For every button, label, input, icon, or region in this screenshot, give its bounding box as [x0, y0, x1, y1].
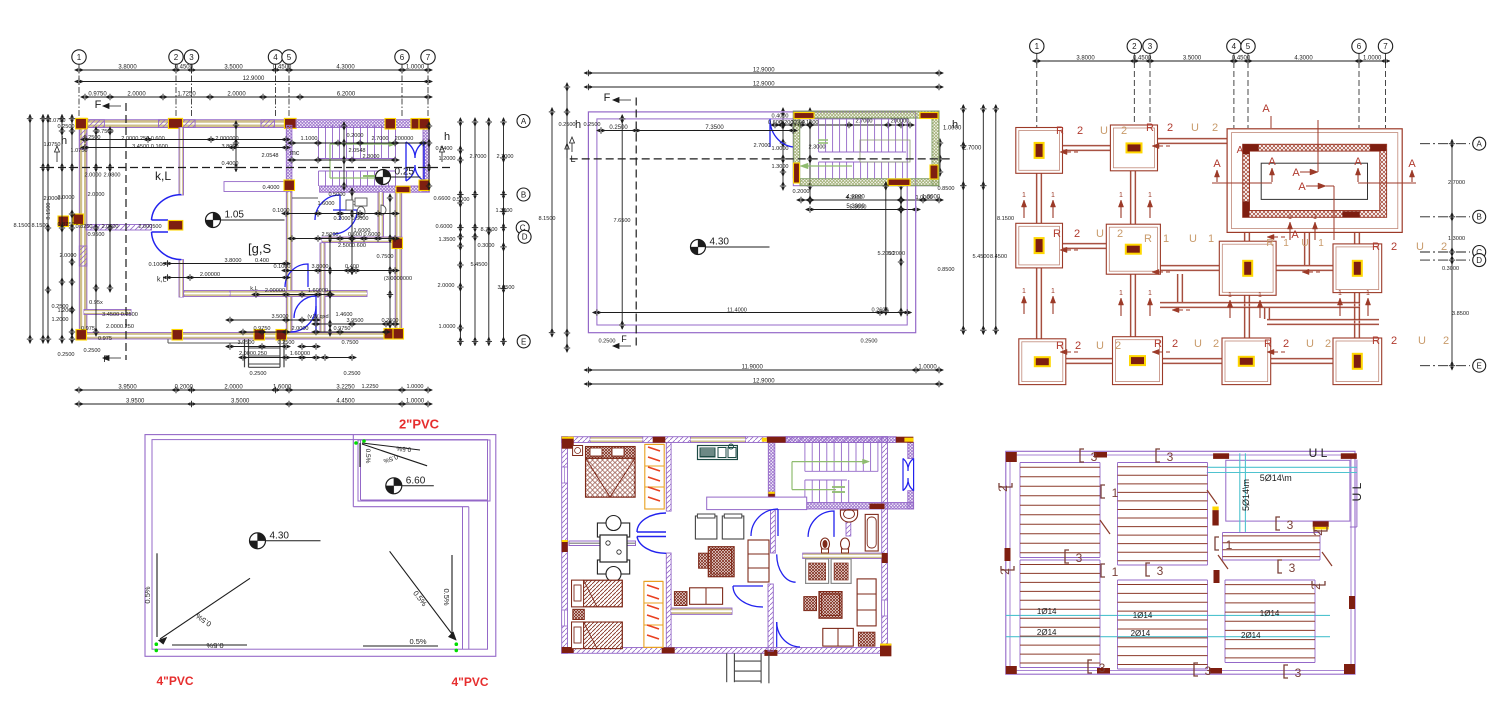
- svg-text:5.3000: 5.3000: [849, 205, 866, 211]
- plan1 interior wall left room divider: [230, 291, 367, 297]
- svg-text:3: 3: [1148, 42, 1153, 51]
- plan5 column blocks: [562, 437, 574, 449]
- svg-text:1.3000: 1.3000: [495, 208, 512, 214]
- plan5 hall door arcs: [751, 509, 778, 536]
- svg-text:1: 1: [1035, 42, 1040, 51]
- plan1 stair top wall crosshatch: [296, 120, 429, 128]
- plan1 top wall columns: [79, 118, 88, 128]
- svg-text:4.1000: 4.1000: [801, 120, 818, 126]
- plan1 small wall bottom-left: [84, 310, 131, 315]
- svg-text:0.4000: 0.4000: [262, 185, 279, 191]
- svg-text:U L: U L: [1309, 446, 1328, 460]
- plan3 grid bubbles: [1030, 39, 1044, 53]
- svg-text:12.9000: 12.9000: [753, 82, 775, 88]
- svg-text:1.05: 1.05: [225, 210, 245, 221]
- svg-text:F: F: [103, 354, 109, 364]
- svg-text:4.3000: 4.3000: [845, 195, 862, 201]
- plan6 rebar panels: [1019, 463, 1021, 558]
- svg-text:0.1000: 0.1000: [148, 262, 165, 268]
- svg-text:2: 2: [1167, 122, 1173, 134]
- svg-text:1.1000: 1.1000: [300, 136, 317, 142]
- plan4 slope arrows bottom-left: [160, 578, 250, 639]
- svg-text:1Ø14: 1Ø14: [1037, 607, 1057, 616]
- svg-text:6: 6: [1357, 42, 1362, 51]
- svg-text:3.8000: 3.8000: [118, 65, 137, 71]
- svg-text:0.2500: 0.2500: [583, 122, 600, 128]
- svg-text:0.5000: 0.5000: [328, 192, 345, 198]
- plan5 stair block walls crosshatch: [786, 437, 896, 443]
- plan1 stair treads lower flight: [318, 171, 320, 186]
- svg-text:1: 1: [1283, 238, 1289, 249]
- svg-text:A: A: [1291, 229, 1299, 241]
- plan5 bed1 double bed: [586, 447, 636, 498]
- svg-text:1: 1: [1148, 192, 1152, 199]
- svg-text:2: 2: [1391, 241, 1397, 253]
- svg-text:1.0000: 1.0000: [406, 65, 425, 71]
- svg-text:2Ø14: 2Ø14: [1241, 631, 1261, 640]
- plan5 study desk: [690, 588, 723, 605]
- svg-text:6: 6: [400, 53, 405, 62]
- svg-text:2Ø14: 2Ø14: [1037, 628, 1057, 637]
- svg-text:4.30: 4.30: [270, 530, 290, 541]
- svg-text:2Ø14: 2Ø14: [1131, 629, 1151, 638]
- svg-text:3: 3: [1205, 664, 1212, 678]
- plan1 corner column redraw: [76, 118, 87, 128]
- plan5 stair green arrow: [792, 461, 863, 463]
- plan6 stair region rect: [1226, 460, 1350, 521]
- plan1 porch outline: [167, 339, 169, 343]
- svg-text:1.0000: 1.0000: [406, 399, 425, 405]
- plan2 stair hatched bands: [793, 111, 939, 118]
- svg-text:U: U: [1418, 335, 1426, 347]
- plan1 interior wall at x179: [179, 128, 184, 196]
- svg-text:7: 7: [426, 53, 431, 62]
- plan4 level markers: [250, 533, 266, 549]
- plan6 bracket labels: [1080, 449, 1084, 462]
- svg-text:3.8000: 3.8000: [224, 258, 241, 264]
- plan3 stair footing dark segments: [1243, 144, 1259, 151]
- svg-text:1.0000: 1.0000: [918, 365, 937, 371]
- svg-text:1.3500: 1.3500: [438, 237, 455, 243]
- plan5 interior walls: [666, 443, 671, 512]
- svg-text:2.0800: 2.0800: [103, 173, 120, 179]
- plan1 door arc hall: [333, 210, 357, 234]
- svg-text:12.9000: 12.9000: [243, 76, 265, 82]
- svg-text:(3.0000000: (3.0000000: [384, 276, 412, 282]
- svg-text:1: 1: [1051, 192, 1055, 199]
- svg-text:3.8000: 3.8000: [311, 264, 328, 270]
- plan3 beams vertical: [1035, 170, 1037, 225]
- plan5 upper hall arc: [777, 554, 796, 582]
- svg-text:1.6000: 1.6000: [273, 385, 292, 391]
- svg-text:5.4500: 5.4500: [972, 254, 989, 260]
- svg-text:1.0000: 1.0000: [771, 146, 788, 152]
- svg-text:1: 1: [1119, 290, 1123, 297]
- svg-text:R: R: [1144, 233, 1152, 245]
- plan5 toilets: [821, 538, 830, 550]
- plan1 far left dim chains: [29, 119, 31, 339]
- plan5 bathroom sink: [840, 510, 857, 522]
- svg-text:7: 7: [1383, 42, 1388, 51]
- svg-text:1Ø14: 1Ø14: [1260, 609, 1280, 618]
- svg-text:A: A: [1408, 158, 1416, 170]
- plan2 stair green arrow: [806, 165, 852, 167]
- svg-text:5: 5: [1246, 42, 1251, 51]
- plan2 left dim verticals: [551, 112, 553, 333]
- plan1 kitchen counter line: [292, 197, 318, 199]
- svg-text:1: 1: [1112, 486, 1119, 500]
- plan1 interior vertical wall right room: [320, 243, 325, 333]
- svg-text:mc: mc: [290, 150, 300, 157]
- svg-text:0.4500: 0.4500: [175, 65, 194, 71]
- svg-text:2: 2: [1441, 241, 1447, 253]
- svg-text:2.0548: 2.0548: [348, 148, 365, 154]
- plan5 wardrobe1 orange: [645, 444, 664, 509]
- plan4 upper-right terrace sub-rect outer: [352, 435, 354, 507]
- plan5 tv unit: [823, 628, 854, 646]
- svg-text:1.2250: 1.2250: [361, 384, 378, 390]
- svg-text:1: 1: [1228, 292, 1232, 299]
- plan5 nightstand1: [573, 446, 583, 456]
- plan1 left wall: [79, 120, 87, 339]
- svg-text:8.1500: 8.1500: [538, 216, 555, 222]
- svg-text:200000: 200000: [891, 119, 910, 125]
- svg-text:0.975: 0.975: [98, 336, 112, 342]
- svg-text:A: A: [1213, 158, 1221, 170]
- plan1 interior vertical wall mid: [286, 192, 292, 333]
- svg-text:0.2500: 0.2500: [51, 304, 68, 310]
- svg-text:0.400: 0.400: [255, 258, 269, 264]
- plan2 stair treads: [818, 119, 820, 153]
- svg-text:0.2500: 0.2500: [860, 339, 877, 345]
- plan2 top dim rows: [588, 72, 939, 74]
- plan1 interior wall kitchen vertical: [378, 192, 384, 237]
- plan1 stair bottom column: [396, 186, 410, 193]
- svg-text:3: 3: [1091, 450, 1098, 464]
- plan1 stair left wall crosshatch: [286, 125, 292, 192]
- plan2 section dashed h: [570, 158, 951, 160]
- svg-text:A: A: [1477, 140, 1483, 149]
- svg-text:R: R: [1264, 338, 1272, 350]
- plan5 entrance steps: [726, 653, 728, 682]
- svg-text:0.2500: 0.2500: [343, 371, 360, 377]
- svg-text:4: 4: [1232, 42, 1237, 51]
- svg-text:U: U: [1191, 122, 1199, 134]
- svg-text:2.0000.250 0.600: 2.0000.250 0.600: [121, 136, 165, 142]
- plan1 column blocks: [385, 119, 396, 130]
- svg-text:E: E: [521, 337, 526, 346]
- svg-text:B: B: [1477, 213, 1482, 222]
- plan5 living armchairs: [695, 516, 717, 539]
- plan4 inner rect: [152, 440, 488, 650]
- plan2 inner rectangle: [597, 119, 907, 325]
- svg-text:0.5%: 0.5%: [143, 586, 152, 603]
- plan5 nightstand2: [573, 609, 585, 619]
- svg-text:U: U: [1100, 125, 1108, 137]
- svg-text:0.2500: 0.2500: [249, 371, 266, 377]
- plan2 level marker: [691, 240, 706, 255]
- svg-text:2.000500: 2.000500: [138, 224, 161, 230]
- svg-text:3.9500: 3.9500: [126, 399, 145, 405]
- svg-text:1.2000: 1.2000: [51, 317, 68, 323]
- svg-text:2.7000: 2.7000: [496, 154, 513, 160]
- svg-text:2.0000: 2.0000: [227, 92, 246, 98]
- svg-text:3: 3: [1076, 551, 1083, 565]
- svg-text:3: 3: [1289, 561, 1296, 575]
- svg-text:0.8250: 0.8250: [75, 224, 92, 230]
- plan5 living2 armchairs top: [806, 559, 829, 584]
- svg-text:3.4500 0.2500: 3.4500 0.2500: [102, 312, 138, 318]
- svg-text:U: U: [1416, 241, 1424, 253]
- svg-text:2: 2: [1115, 340, 1121, 352]
- plan1 double door center block: [168, 221, 183, 231]
- svg-text:1: 1: [1022, 288, 1026, 295]
- plan5 living door arc: [733, 586, 763, 607]
- plan5 kitchen counter: [698, 446, 738, 460]
- plan1 0.4000 white box: [224, 182, 285, 192]
- svg-text:2.0000: 2.0000: [224, 385, 243, 391]
- plan1 stair bottom band crosshatch: [320, 186, 430, 192]
- svg-text:U: U: [1306, 338, 1314, 350]
- svg-text:2: 2: [174, 53, 179, 62]
- plan1 interior wall left small: [184, 291, 230, 297]
- plan3 beams horizontal: [1062, 144, 1111, 146]
- plan5 side table2: [804, 597, 817, 611]
- plan6 cyan lines: [1207, 466, 1357, 468]
- plan3 footing squares row2: [1016, 223, 1063, 268]
- plan1 grid dashed lines: [78, 64, 80, 117]
- plan1 top wall hatched window segments: [87, 120, 104, 128]
- svg-text:U: U: [1194, 338, 1202, 350]
- svg-text:[g,S: [g,S: [248, 241, 271, 256]
- plan1 stair double door blue: [406, 142, 424, 181]
- svg-text:0.4500: 0.4500: [273, 65, 292, 71]
- svg-text:0.2000: 0.2000: [175, 385, 194, 391]
- svg-text:0.1000: 0.1000: [273, 264, 290, 270]
- plan3 footing squares row1: [1016, 128, 1063, 174]
- svg-text:1: 1: [1338, 290, 1342, 297]
- svg-text:2.7000: 2.7000: [753, 143, 770, 149]
- plan2 outer rectangle: [588, 112, 915, 333]
- svg-text:8.4500: 8.4500: [990, 254, 1007, 260]
- svg-text:8.1500: 8.1500: [46, 202, 52, 219]
- svg-text:1.60000: 1.60000: [290, 351, 310, 357]
- plan4 sub-rect inner lines: [360, 440, 362, 500]
- svg-text:1.6000: 1.6000: [317, 201, 334, 207]
- svg-text:0.2500: 0.2500: [598, 339, 615, 345]
- plan1 right wall lower: [395, 192, 402, 333]
- svg-text:1: 1: [1288, 214, 1292, 221]
- plan4 slope arrows top sub-rect: [362, 444, 427, 466]
- svg-text:1.7250: 1.7250: [177, 92, 196, 98]
- svg-text:0.8750: 0.8750: [57, 222, 74, 228]
- svg-text:0.6000: 0.6000: [435, 224, 452, 230]
- plan2 dims inside: [601, 130, 793, 132]
- svg-text:R: R: [1053, 228, 1061, 240]
- svg-text:1.0000: 1.0000: [1363, 56, 1382, 62]
- svg-text:2.7000: 2.7000: [371, 136, 388, 142]
- plan5 wall windows: [562, 467, 568, 483]
- svg-text:0.3000: 0.3000: [1442, 266, 1459, 272]
- svg-text:4.3000: 4.3000: [1294, 56, 1313, 62]
- plan5 outer walls hatched: [562, 437, 888, 443]
- svg-text:h: h: [444, 131, 450, 143]
- svg-text:k,L: k,L: [155, 169, 171, 183]
- svg-text:1.3000: 1.3000: [1448, 236, 1465, 242]
- svg-text:R: R: [1372, 241, 1380, 253]
- plan3 right bubbles and dims: [1473, 137, 1486, 150]
- svg-text:h: h: [575, 119, 581, 131]
- plan5 double door leaves: [637, 531, 666, 533]
- svg-text:1: 1: [1318, 238, 1324, 249]
- svg-text:1.0750: 1.0750: [43, 142, 60, 148]
- svg-text:1.2000: 1.2000: [438, 156, 455, 162]
- svg-text:2: 2: [1212, 122, 1218, 134]
- svg-text:2.7000: 2.7000: [963, 145, 982, 151]
- svg-text:R: R: [1372, 335, 1380, 347]
- svg-text:4: 4: [273, 53, 278, 62]
- svg-text:7.3500: 7.3500: [705, 125, 724, 131]
- plan1 left room door dims: [168, 263, 287, 265]
- svg-text:1.0000: 1.0000: [915, 195, 932, 201]
- svg-text:8.7500: 8.7500: [480, 227, 497, 233]
- svg-text:5.4500: 5.4500: [470, 262, 487, 268]
- svg-text:2: 2: [1121, 125, 1127, 137]
- svg-text:2"PVC: 2"PVC: [399, 417, 440, 432]
- svg-text:2.7000: 2.7000: [469, 154, 486, 160]
- plan4 outer rect: [145, 435, 496, 657]
- svg-text:1: 1: [1148, 290, 1152, 297]
- svg-text:3.2250: 3.2250: [336, 385, 355, 391]
- svg-text:A: A: [1298, 181, 1306, 193]
- svg-text:0.3000: 0.3000: [477, 243, 494, 249]
- plan5 single bed2: [572, 622, 623, 649]
- svg-text:2.00000: 2.00000: [265, 288, 285, 294]
- svg-text:0.5%: 0.5%: [364, 449, 371, 464]
- svg-text:U: U: [1096, 340, 1104, 352]
- svg-text:1: 1: [1258, 292, 1262, 299]
- svg-text:0.2000: 0.2000: [792, 189, 809, 195]
- svg-text:R: R: [1056, 340, 1064, 352]
- svg-text:1: 1: [1163, 233, 1169, 245]
- svg-text:R: R: [1266, 238, 1273, 249]
- svg-text:1: 1: [77, 53, 82, 62]
- plan1 door arc bed right: [285, 264, 308, 287]
- svg-text:5: 5: [287, 53, 292, 62]
- plan5 kitchen bottom white box: [707, 497, 807, 510]
- plan5 entry shelf cupboard: [748, 540, 769, 582]
- svg-text:U: U: [1189, 233, 1197, 245]
- svg-text:A: A: [1268, 156, 1276, 168]
- svg-text:0.7500: 0.7500: [341, 340, 358, 346]
- svg-text:A: A: [1292, 167, 1300, 179]
- svg-text:2: 2: [1117, 228, 1123, 240]
- svg-text:1.0750: 1.0750: [48, 118, 65, 124]
- svg-text:R: R: [1146, 122, 1154, 134]
- plan5 single bed1: [572, 580, 623, 607]
- svg-text:12.9000: 12.9000: [753, 68, 775, 74]
- svg-text:D: D: [522, 233, 528, 242]
- plan1 double door leaf lines: [152, 219, 169, 221]
- plan1 grid bubbles: [72, 50, 86, 64]
- svg-text:0.975: 0.975: [81, 326, 95, 332]
- plan5 carpet2: [819, 592, 842, 619]
- svg-text:3.9500: 3.9500: [118, 385, 137, 391]
- svg-text:2: 2: [1074, 228, 1080, 240]
- svg-text:3.8500: 3.8500: [1452, 311, 1469, 317]
- plan1 bath fixtures: [355, 198, 367, 206]
- plan1 door arc bottom right: [290, 306, 316, 332]
- plan4 slope arrows bottom-right: [390, 551, 455, 638]
- plan5 top wall tan parts: [590, 437, 643, 443]
- svg-text:F: F: [95, 99, 102, 111]
- plan1 stair green arrow up: [330, 143, 390, 145]
- svg-text:2: 2: [1443, 335, 1449, 347]
- svg-text:0.8500: 0.8500: [937, 186, 954, 192]
- plan1 section line h horizontal dashed: [46, 167, 452, 169]
- plan1 door arc kitchen: [315, 195, 340, 220]
- svg-text:0.5%: 0.5%: [442, 588, 451, 605]
- svg-text:2: 2: [996, 485, 1010, 492]
- plan5 wardrobe2 orange: [644, 581, 663, 647]
- plan1 bottom wall: [79, 333, 402, 340]
- svg-text:2.00000: 2.00000: [200, 272, 220, 278]
- svg-text:4.30: 4.30: [710, 237, 730, 248]
- svg-text:5Ø14\m: 5Ø14\m: [1260, 473, 1292, 483]
- svg-text:2: 2: [1309, 583, 1323, 590]
- svg-text:4"PVC: 4"PVC: [156, 674, 193, 688]
- svg-text:4.4500: 4.4500: [336, 399, 355, 405]
- svg-text:1.0000: 1.0000: [438, 324, 455, 330]
- svg-text:R: R: [1154, 338, 1162, 350]
- svg-text:2: 2: [1283, 338, 1289, 350]
- svg-text:0.9750: 0.9750: [88, 92, 107, 98]
- svg-text:1Ø14: 1Ø14: [1133, 611, 1153, 620]
- plan5 living room vertical wall: [768, 584, 773, 651]
- svg-text:3: 3: [1157, 564, 1164, 578]
- plan2 section F dashed vertical: [635, 98, 637, 349]
- plan1 level markers: [206, 213, 221, 228]
- svg-text:2.0000: 2.0000: [59, 253, 76, 259]
- svg-text:8.1500: 8.1500: [13, 223, 30, 229]
- svg-text:F: F: [621, 334, 627, 344]
- svg-text:3.9500: 3.9500: [237, 340, 254, 346]
- svg-text:2.3000: 2.3000: [362, 154, 379, 160]
- svg-text:0.8500: 0.8500: [937, 267, 954, 273]
- plan3 footing squares row3: [1019, 339, 1066, 385]
- svg-text:3: 3: [1295, 666, 1302, 680]
- svg-text:4"PVC: 4"PVC: [451, 675, 488, 689]
- plan2 bottom dims: [597, 312, 907, 314]
- plan1 wc fixture: [381, 205, 386, 215]
- plan3 stair footing big rect: [1227, 129, 1402, 233]
- plan2 stair column blocks: [794, 113, 814, 119]
- svg-text:2: 2: [1077, 125, 1083, 137]
- svg-text:2: 2: [1172, 338, 1178, 350]
- plan3 long beam lower: [1160, 301, 1360, 303]
- plan5 double door dining upper arc: [637, 513, 666, 532]
- plan4 green dots: [354, 441, 358, 445]
- svg-text:1: 1: [1112, 565, 1119, 579]
- plan1 bottom dim rows: [79, 389, 428, 391]
- svg-text:3.8000: 3.8000: [1076, 56, 1095, 62]
- svg-text:8.1500: 8.1500: [997, 216, 1014, 222]
- svg-text:R: R: [1056, 125, 1064, 137]
- plan1 double door living lower arc: [152, 232, 182, 260]
- svg-text:F: F: [604, 92, 611, 104]
- svg-text:2.0000.250: 2.0000.250: [106, 324, 134, 330]
- plan1 stair right wall crosshatch: [423, 125, 429, 192]
